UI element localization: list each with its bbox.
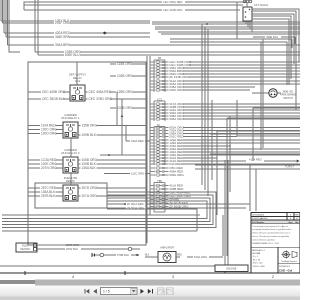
wire bundle top-left vertical feeders <box>1 0 20 52</box>
connector pin AC-12 413A RED <box>150 159 246 163</box>
title block CAD cell <box>278 263 300 272</box>
connector pin TB6-4 CEC 309C RED <box>150 194 192 198</box>
wire bundle top-left second group x35 <box>35 0 38 55</box>
svg-text:291F ORG: 291F ORG <box>55 21 71 25</box>
connector pin X-1 CBC RED <box>150 166 184 170</box>
connector pin CC2-5 308A ORG <box>150 114 300 118</box>
svg-text:679B BLK: 679B BLK <box>117 253 129 257</box>
wire top bus CEC 324B ORG <box>24 8 240 12</box>
connector pin AC-5 129A RED <box>150 138 300 142</box>
relay K1 DEF SUPPLY RELAY CC2 <box>28 62 147 101</box>
svg-text:unless otherwise specified.: unless otherwise specified. <box>252 238 275 241</box>
wire band y39-42 <box>170 39 292 85</box>
toolbar icon prev view disabled <box>158 288 165 295</box>
svg-text:FUEL: FUEL <box>22 245 29 248</box>
connector pin CC2-1 317A ORG <box>150 102 300 106</box>
svg-text:CEC 309G RED: CEC 309G RED <box>163 0 182 4</box>
ground symbol and wire 679B BLK <box>92 253 140 257</box>
connector AFT (SHLD) <box>243 0 268 21</box>
wire long verticals to amplifier/engine <box>223 160 228 265</box>
wire label 103B ORG inline y108 <box>110 106 147 110</box>
svg-text:135B ORG: 135B ORG <box>82 124 98 128</box>
wire label 125B ORG inline y92 <box>116 90 133 95</box>
svg-text:ZF 500A ORG: ZF 500A ORG <box>127 206 144 210</box>
connector pin AC-2 702A ORG <box>150 129 300 133</box>
title block notes text <box>252 225 292 245</box>
component ENGINE <box>215 265 248 272</box>
svg-text:DECIMAL: DECIMAL <box>252 252 260 255</box>
wire 291F ORG <box>3 21 151 25</box>
svg-text:103B ORG: 103B ORG <box>117 74 133 78</box>
svg-text:306A ORG: 306A ORG <box>169 117 184 121</box>
wire verticals right-middle descenders <box>212 100 253 256</box>
connector pin FB-5 264D ORG <box>150 72 300 76</box>
connector strip TB6 header <box>154 179 165 210</box>
connector pin TB6-5 SPARE <box>150 198 179 202</box>
wire bottom bus lines <box>2 209 200 231</box>
wire corner drops to title area <box>195 165 256 211</box>
svg-text:4: 4 <box>290 218 291 220</box>
svg-text:110C ORG: 110C ORG <box>131 172 144 176</box>
svg-text:103B ORG: 103B ORG <box>117 106 133 110</box>
relay K3 CARRIER RUN RELAY 2 <box>28 148 147 173</box>
svg-text:ANGULAR ± 1°: ANGULAR ± 1° <box>252 249 265 252</box>
svg-text:394A BRN: 394A BRN <box>55 43 71 47</box>
svg-text:CC2: CC2 <box>75 79 81 83</box>
toolbar page field 1/5 <box>101 288 138 295</box>
svg-text:3: 3 <box>172 275 174 279</box>
svg-text:.XXXX ± .0050: .XXXX ± .0050 <box>252 266 264 268</box>
svg-text:Rev: Rev <box>295 222 298 224</box>
connector pin FB-7 312A ORG <box>150 79 300 83</box>
connector pin CC2-2 318B ORG <box>150 105 300 109</box>
svg-text:CEC 405B ORG: CEC 405B ORG <box>42 90 66 94</box>
wire band upper y21-41 <box>152 22 300 34</box>
switch S1 PARK BRAKE <box>252 89 296 100</box>
svg-text:REMARKS ASME Y14.5 - 1994: REMARKS ASME Y14.5 - 1994 <box>252 242 278 245</box>
svg-text:1 / 5: 1 / 5 <box>103 290 110 294</box>
svg-text:413A RED: 413A RED <box>249 157 262 161</box>
toolbar background <box>0 286 300 297</box>
harness enclosure box <box>28 62 146 245</box>
svg-text:346E BRN: 346E BRN <box>55 35 71 39</box>
svg-text:Unless otherwise specified dim: Unless otherwise specified dimensions ar… <box>252 232 290 235</box>
connector pin AC-4 201C RED <box>150 135 237 139</box>
svg-text:AMPLIFIER: AMPLIFIER <box>160 246 174 250</box>
svg-text:ZF 901A RED: ZF 901A RED <box>127 202 144 206</box>
component FUEL HEATER <box>16 243 37 252</box>
svg-text:.XXX ± .010: .XXX ± .010 <box>252 263 262 265</box>
svg-text:This drawing is the property o: This drawing is the property of J-t-t Ag… <box>252 225 289 228</box>
wire 420A RED with junction <box>4 31 150 35</box>
scrollbar thumb <box>35 280 300 286</box>
svg-text:inches. The tolerances below: inches. The tolerances below are applica… <box>252 235 289 238</box>
svg-text:SWITCH: SWITCH <box>283 97 293 100</box>
svg-text:4: 4 <box>290 215 291 217</box>
connector strip CC2 header <box>154 97 165 121</box>
wire relay interconnects <box>70 138 72 185</box>
connector pin TB6-3 CEC 409A RED <box>150 191 191 195</box>
scrollbar track <box>0 280 300 284</box>
svg-text:434A RED: 434A RED <box>131 139 144 143</box>
svg-text:2: 2 <box>272 275 274 279</box>
svg-text:FB: FB <box>158 56 162 60</box>
connector pin FB-8 318A ORG <box>150 82 300 86</box>
connector pin X-2 409A RED <box>150 170 184 174</box>
connector pin AC-6 139A RED <box>150 141 300 145</box>
svg-text:81957A00010: 81957A00010 <box>252 214 264 217</box>
title block third angle projection symbol <box>278 247 297 272</box>
svg-text:.XX ± .06: .XX ± .06 <box>252 259 260 261</box>
svg-text:BLK: BLK <box>145 255 150 257</box>
connector pin AC-3 209A ORG <box>150 132 300 136</box>
wire 346E BRN <box>6 35 150 39</box>
svg-text:4: 4 <box>72 275 74 279</box>
svg-text:115B ORG: 115B ORG <box>117 62 133 66</box>
connector pin FB-3 405A ORG <box>150 66 300 70</box>
status bar bottom <box>0 297 300 300</box>
svg-text:RUN RELAY 1: RUN RELAY 1 <box>61 116 80 120</box>
toolbar button last page <box>148 289 153 294</box>
wire top bus CEC 309G RED <box>24 0 247 10</box>
svg-text:109B BLK: 109B BLK <box>82 133 97 137</box>
wire stubs below AFT connector <box>237 2 252 39</box>
relay K4 FUEL HTR RELAY <box>28 176 147 208</box>
svg-text:125B ORG: 125B ORG <box>117 90 133 94</box>
svg-text:CEC 378G ORG: CEC 378G ORG <box>89 97 113 101</box>
connector pin TB6-1 411A RED <box>150 184 184 188</box>
wire vertical rails x147-150 <box>147 56 150 243</box>
svg-text:CEC 324B ORG: CEC 324B ORG <box>163 8 183 12</box>
svg-text:207A ORG: 207A ORG <box>82 194 98 198</box>
svg-text:257D ORG: 257D ORG <box>82 186 98 190</box>
svg-text:257D ORG: 257D ORG <box>66 243 79 247</box>
connector pin TB6-2 403B RED <box>150 187 184 191</box>
wire fan from AFT connector to right edge <box>252 9 299 110</box>
svg-text:RED: RED <box>177 255 182 257</box>
connector pin FB-10 2640 ORG <box>150 88 250 92</box>
connector strip FB header <box>154 56 165 92</box>
svg-text:135A BLK: 135A BLK <box>82 166 97 170</box>
svg-text:.X ± .1: .X ± .1 <box>252 256 257 258</box>
relay K2 CARRIER RUN RELAY 1 <box>28 113 147 138</box>
connector pin CC2-4 309A ORG <box>150 111 300 115</box>
svg-text:TURN F: TURN F <box>285 166 295 169</box>
connector pin CC2-6 306A ORG <box>150 117 300 121</box>
svg-text:2640 ORG: 2640 ORG <box>169 88 184 92</box>
svg-text:ENGINE: ENGINE <box>227 267 237 271</box>
connector pin FB-1 CEC 320B ORG <box>150 60 300 64</box>
wire labels 115B ORG / 103B ORG right of DEF relay <box>110 62 147 78</box>
title block border <box>251 213 300 273</box>
svg-text:120D ORG: 120D ORG <box>41 132 57 136</box>
wire 510A ORG from amplifier <box>176 255 223 260</box>
connector strip AC header <box>154 123 165 165</box>
connector pin AC-13 64A RED <box>150 162 300 166</box>
connector pin AC-9 102A RED <box>150 150 300 154</box>
svg-text:and loyally somehow herein is: and loyally somehow herein is prohibited… <box>252 228 292 231</box>
wire hairpin loops x195-216 <box>2 192 216 228</box>
wire top bus 2 <box>24 4 243 6</box>
wire bottom rail <box>0 265 215 267</box>
svg-text:B 00760 4A00010: B 00760 4A00010 <box>252 217 267 220</box>
svg-text:CEC 405A RED: CEC 405A RED <box>89 90 112 94</box>
title block tolerance column <box>251 247 300 267</box>
connector pin FB-9 345A ORG <box>150 85 255 89</box>
connector pin FB-2 CEC 430B ORG <box>150 63 300 67</box>
connector pin CC2-3 324A ORG <box>150 108 300 112</box>
connector pin FB-6 ZF 314B ORG <box>150 75 300 79</box>
wire verticals x202-210 <box>202 24 208 196</box>
svg-text:509A ORG: 509A ORG <box>169 173 184 177</box>
connector pin AC-1 801A ORG <box>150 126 300 130</box>
wire ZF 500A ORG <box>107 206 246 210</box>
drawing border bottom <box>0 271 300 275</box>
wire ZF 901A RED <box>107 202 250 206</box>
svg-text:CEC 35GB BLK: CEC 35GB BLK <box>42 97 66 101</box>
wire 139Y BLK <box>1 19 150 23</box>
wire 434A RED into strip <box>126 126 150 144</box>
svg-text:639E BLU: 639E BLU <box>65 53 80 57</box>
svg-text:AFT (SHLD): AFT (SHLD) <box>254 3 268 7</box>
svg-text:CAD - Gol: CAD - Gol <box>279 268 292 272</box>
wire 639E BLU <box>38 53 300 57</box>
connector pin AC-8 429A RED <box>150 147 300 151</box>
wire junctions near relays <box>100 92 147 156</box>
wire vertical drops right side <box>261 39 263 150</box>
connector pin FB-4 504A BRN <box>150 69 300 73</box>
component AMPLIFIER <box>145 246 176 263</box>
wire 103B ORG <box>35 50 300 54</box>
connector pin TB6-7 ZF 600B ORG <box>150 205 189 209</box>
wire return rows right-middle <box>195 108 300 169</box>
connector pin AC-11 410A RED <box>150 156 217 160</box>
svg-text:257B BLK: 257B BLK <box>41 194 56 198</box>
wire 257D ORG <box>37 243 100 247</box>
connector pin TB6-6 ZF 901B RED <box>150 201 189 205</box>
toolbar button first page <box>85 289 90 294</box>
toolbar button next page <box>140 289 144 294</box>
svg-text:510A ORG: 510A ORG <box>194 255 207 259</box>
wire 110C ORG into strip <box>104 172 150 176</box>
connector pin X-3 509A ORG <box>150 173 184 177</box>
title block revision table <box>251 213 300 224</box>
connector pin AC-10 139A RED <box>150 153 300 157</box>
wire 394A BRN <box>8 43 301 47</box>
connector pin AC-7 433A RED <box>150 144 231 148</box>
wire 398E BLU <box>253 35 295 44</box>
toolbar button prev page <box>93 289 97 294</box>
connector strip bottom bracket <box>154 210 165 212</box>
toolbar icon next view disabled <box>167 288 174 295</box>
svg-text:207N ORG: 207N ORG <box>41 166 57 170</box>
svg-text:HEATER: HEATER <box>20 248 30 251</box>
wire 413A RED to turn feed <box>249 157 300 168</box>
wire 257E BLK with splice <box>37 247 140 251</box>
svg-text:E.O. Number: E.O. Number <box>252 222 264 224</box>
svg-text:257E BLK: 257E BLK <box>66 247 78 251</box>
svg-text:Zone: Zone <box>288 222 292 224</box>
